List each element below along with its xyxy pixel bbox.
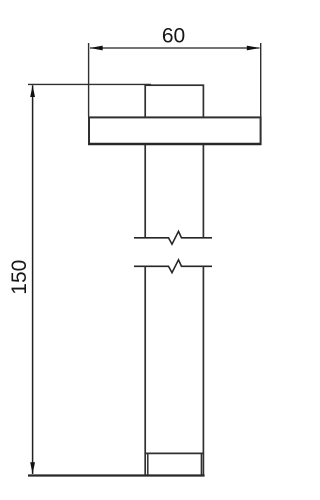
- svg-text:60: 60: [162, 25, 185, 48]
- svg-text:150: 150: [8, 260, 31, 295]
